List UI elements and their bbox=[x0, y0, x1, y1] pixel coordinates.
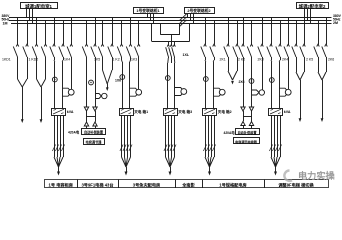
incomer 3 leads bbox=[187, 13, 189, 17]
wire bbox=[288, 17, 290, 23]
svg-text:1号变联络柜1: 1号变联络柜1 bbox=[136, 8, 159, 13]
capacitor fuse symbols C1 upper bbox=[84, 107, 97, 111]
legend table bbox=[45, 180, 329, 189]
motor drop bbox=[138, 57, 140, 89]
cable bundle U3 bbox=[164, 115, 176, 176]
svg-text:灭电 箱1: 灭电 箱1 bbox=[133, 109, 148, 114]
motor feeder U4 bbox=[213, 88, 225, 96]
tie feeder taper bbox=[168, 57, 175, 64]
wire bbox=[22, 87, 24, 120]
wire bbox=[304, 17, 306, 23]
wire bbox=[228, 17, 230, 23]
svg-text:2M: 2M bbox=[333, 21, 338, 25]
bus tie isolator bbox=[180, 14, 187, 26]
wire bbox=[251, 57, 253, 107]
motor feeder U5 bbox=[279, 88, 291, 96]
switch bbox=[292, 23, 298, 57]
wire bbox=[130, 17, 132, 23]
transformer box U5 bbox=[269, 109, 283, 116]
wire bbox=[318, 20, 320, 23]
wire bbox=[41, 87, 43, 120]
motor feeder C2 bbox=[252, 90, 264, 95]
busbar line2 bbox=[9, 20, 332, 22]
wire bbox=[86, 20, 88, 23]
switch bbox=[108, 23, 114, 57]
switch bbox=[98, 23, 104, 57]
wire bbox=[243, 126, 245, 129]
motor feeder U3 bbox=[175, 88, 187, 96]
incomer 4 leads bbox=[304, 9, 306, 17]
svg-text:kVA: kVA bbox=[284, 110, 291, 114]
switch bbox=[224, 23, 230, 57]
switch bbox=[239, 23, 245, 57]
wire bbox=[296, 20, 298, 23]
switch bbox=[23, 23, 29, 57]
tie loop inner U bbox=[161, 23, 180, 35]
arrow bbox=[299, 118, 302, 122]
switch bbox=[32, 23, 38, 57]
wire bbox=[214, 20, 216, 23]
wire bbox=[243, 17, 245, 23]
arrow bbox=[40, 119, 43, 123]
capacitor box C1a bbox=[82, 129, 106, 135]
transformer box U1 bbox=[52, 109, 66, 116]
incomer 1 leads bbox=[26, 9, 28, 17]
switch bbox=[41, 23, 47, 57]
wire bbox=[243, 111, 245, 121]
capacitor fuse symbols C2 lower bbox=[241, 122, 254, 126]
capacitor fuse symbols C1 lower bbox=[84, 122, 97, 126]
meter U5 bbox=[269, 78, 274, 83]
transformer box U4 bbox=[203, 109, 217, 116]
legend texts bbox=[49, 182, 315, 189]
incomer box 3 bbox=[185, 8, 215, 14]
svg-text:调整9F电梯 梯切换: 调整9F电梯 梯切换 bbox=[278, 182, 314, 189]
cable bundle U1 bbox=[52, 115, 64, 176]
switch bbox=[267, 23, 273, 57]
svg-text:自动补偿装置: 自动补偿装置 bbox=[84, 130, 104, 135]
cable bundle U4 bbox=[203, 115, 215, 176]
switch bbox=[210, 23, 216, 57]
switch bbox=[201, 23, 207, 57]
switch bbox=[247, 23, 253, 57]
svg-text:1M: 1M bbox=[3, 22, 8, 26]
busbar section 1M+2M line1 bbox=[9, 17, 332, 19]
capacitor box C2b bbox=[234, 138, 260, 144]
wire bbox=[107, 84, 109, 88]
switch bbox=[13, 23, 18, 57]
svg-text:3号免灾配电房: 3号免灾配电房 bbox=[133, 182, 160, 189]
svg-text:全南影: 全南影 bbox=[181, 182, 195, 189]
svg-text:电容调节器: 电容调节器 bbox=[86, 139, 103, 144]
svg-text:灭电 箱3: 灭电 箱3 bbox=[177, 109, 192, 114]
switch bbox=[276, 23, 282, 57]
svg-text:1号规格配电房: 1号规格配电房 bbox=[219, 182, 246, 189]
capacitor tie line bbox=[87, 116, 96, 118]
meter U4 bbox=[203, 77, 208, 82]
tie loop drops bbox=[169, 35, 175, 45]
svg-text:1XL: 1XL bbox=[183, 53, 190, 57]
wire bbox=[205, 17, 207, 23]
wire bbox=[36, 17, 38, 23]
incomer box 2 bbox=[134, 8, 164, 14]
svg-text:1K5: 1K5 bbox=[94, 58, 100, 62]
svg-text:2K1: 2K1 bbox=[220, 58, 226, 62]
feeder funnel F1 bbox=[18, 57, 28, 87]
svg-text:2K6: 2K6 bbox=[328, 58, 334, 62]
arrow bbox=[231, 81, 234, 85]
meter U3 bbox=[165, 76, 170, 81]
svg-text:城调1配电室1: 城调1配电室1 bbox=[25, 3, 52, 10]
switch bbox=[126, 23, 132, 57]
svg-text:1号 电容柜房: 1号 电容柜房 bbox=[49, 182, 73, 189]
tie switch trio bbox=[166, 45, 176, 57]
wire bbox=[27, 20, 29, 23]
feeder funnel U4 bbox=[205, 57, 215, 62]
feeder funnel U5 bbox=[271, 57, 281, 62]
feeder funnel U2 bbox=[122, 57, 131, 62]
svg-text:1 K2: 1 K2 bbox=[113, 58, 120, 62]
switch bbox=[233, 23, 239, 57]
svg-text:城调2配电室2: 城调2配电室2 bbox=[299, 3, 326, 10]
svg-text:电容调节电容器: 电容调节电容器 bbox=[235, 139, 258, 144]
capacitor box C2a bbox=[236, 129, 260, 135]
capacitor fuse symbols C2 upper bbox=[241, 107, 254, 111]
switch bbox=[91, 23, 97, 57]
svg-text:自动补偿装置: 自动补偿装置 bbox=[237, 130, 257, 135]
svg-text:2号变联络柜2: 2号变联络柜2 bbox=[187, 8, 210, 13]
feeder funnel F2 bbox=[37, 57, 46, 87]
svg-text:420A电: 420A电 bbox=[68, 130, 80, 135]
arrow bbox=[21, 119, 24, 123]
watermark logo bbox=[284, 171, 292, 181]
meter U1 bbox=[52, 77, 57, 82]
wire bbox=[271, 17, 273, 23]
svg-text:420A电: 420A电 bbox=[224, 130, 236, 135]
arrow bbox=[321, 118, 324, 122]
feeder funnel F5 bbox=[296, 57, 305, 80]
switch bbox=[258, 23, 264, 57]
wire bbox=[54, 17, 56, 23]
svg-text:1K3: 1K3 bbox=[131, 58, 137, 62]
feeder funnel F6 bbox=[318, 57, 327, 80]
wire bbox=[102, 20, 104, 23]
feeder channel U3 bbox=[167, 63, 169, 108]
feeder funnel U1 bbox=[54, 57, 64, 62]
capacitor tie line bbox=[243, 116, 252, 118]
svg-text:1K4: 1K4 bbox=[64, 58, 70, 62]
switch bbox=[284, 23, 290, 57]
motor drop bbox=[288, 57, 290, 89]
meter C2 bbox=[249, 79, 254, 84]
arrow bbox=[106, 87, 109, 91]
wire bbox=[138, 20, 140, 23]
wire bbox=[45, 20, 47, 23]
svg-text:3号9F1电梯 43台: 3号9F1电梯 43台 bbox=[81, 182, 113, 189]
busbar line3 bbox=[11, 23, 332, 25]
motor feeder U1 bbox=[62, 88, 74, 96]
svg-text:kVA: kVA bbox=[67, 110, 74, 114]
motor drop bbox=[262, 57, 264, 90]
incomer box 1 bbox=[21, 3, 58, 9]
capacitor box C1b bbox=[84, 139, 105, 145]
cable bundle U5 bbox=[269, 115, 281, 176]
meter U2 bbox=[120, 75, 125, 80]
feeder funnel F4 bbox=[228, 57, 238, 80]
wire bbox=[322, 80, 324, 119]
capacitor feeder lines C1 bbox=[86, 57, 88, 107]
feeder channel U4 bbox=[205, 62, 207, 108]
wire bbox=[251, 20, 253, 23]
switch bbox=[314, 23, 320, 57]
switch bbox=[67, 23, 73, 57]
switch bbox=[135, 23, 141, 57]
motor drop bbox=[71, 57, 73, 89]
feeder channel U5 bbox=[271, 62, 273, 108]
wire bbox=[71, 17, 73, 23]
wire bbox=[63, 20, 65, 23]
wire bbox=[112, 17, 114, 23]
feeder channel U2 bbox=[122, 62, 124, 108]
svg-text:2 K5: 2 K5 bbox=[306, 58, 313, 62]
incomer box 4 bbox=[297, 3, 329, 9]
wire bbox=[280, 20, 282, 23]
wire bbox=[95, 17, 97, 23]
cable bundle U2 bbox=[120, 115, 132, 176]
svg-text:2 K2: 2 K2 bbox=[238, 58, 245, 62]
feeder channel U1 bbox=[54, 62, 56, 108]
wire bbox=[326, 17, 328, 23]
capacitor feeder lines C2 bbox=[243, 57, 245, 107]
wire bbox=[86, 111, 88, 122]
tie loop outer U bbox=[152, 23, 190, 42]
switch bbox=[82, 23, 88, 57]
wire bbox=[300, 80, 302, 119]
wire bbox=[237, 20, 239, 23]
switch bbox=[50, 23, 56, 57]
switch bbox=[117, 23, 123, 57]
svg-text:灭电 箱2: 灭电 箱2 bbox=[217, 109, 232, 114]
transformer box U3 bbox=[164, 109, 178, 116]
wire bbox=[262, 17, 264, 23]
meter C1 bbox=[89, 80, 94, 85]
switch bbox=[322, 23, 328, 57]
motor feeder C1 bbox=[96, 93, 108, 98]
wire bbox=[121, 20, 123, 23]
svg-text:2K4: 2K4 bbox=[282, 58, 288, 62]
transformer box U2 bbox=[120, 109, 134, 116]
feeder funnel F3 bbox=[103, 57, 113, 84]
svg-text:1KD1: 1KD1 bbox=[2, 58, 11, 62]
motor feeder U2 bbox=[130, 88, 142, 96]
svg-text:1X6: 1X6 bbox=[115, 79, 121, 83]
wire bbox=[95, 57, 97, 107]
wire bbox=[86, 126, 88, 129]
incomer 2 leads bbox=[147, 13, 149, 17]
switch bbox=[59, 23, 65, 57]
switch bbox=[300, 23, 306, 57]
wire bbox=[17, 17, 19, 23]
svg-text:电力实操: 电力实操 bbox=[298, 170, 336, 181]
